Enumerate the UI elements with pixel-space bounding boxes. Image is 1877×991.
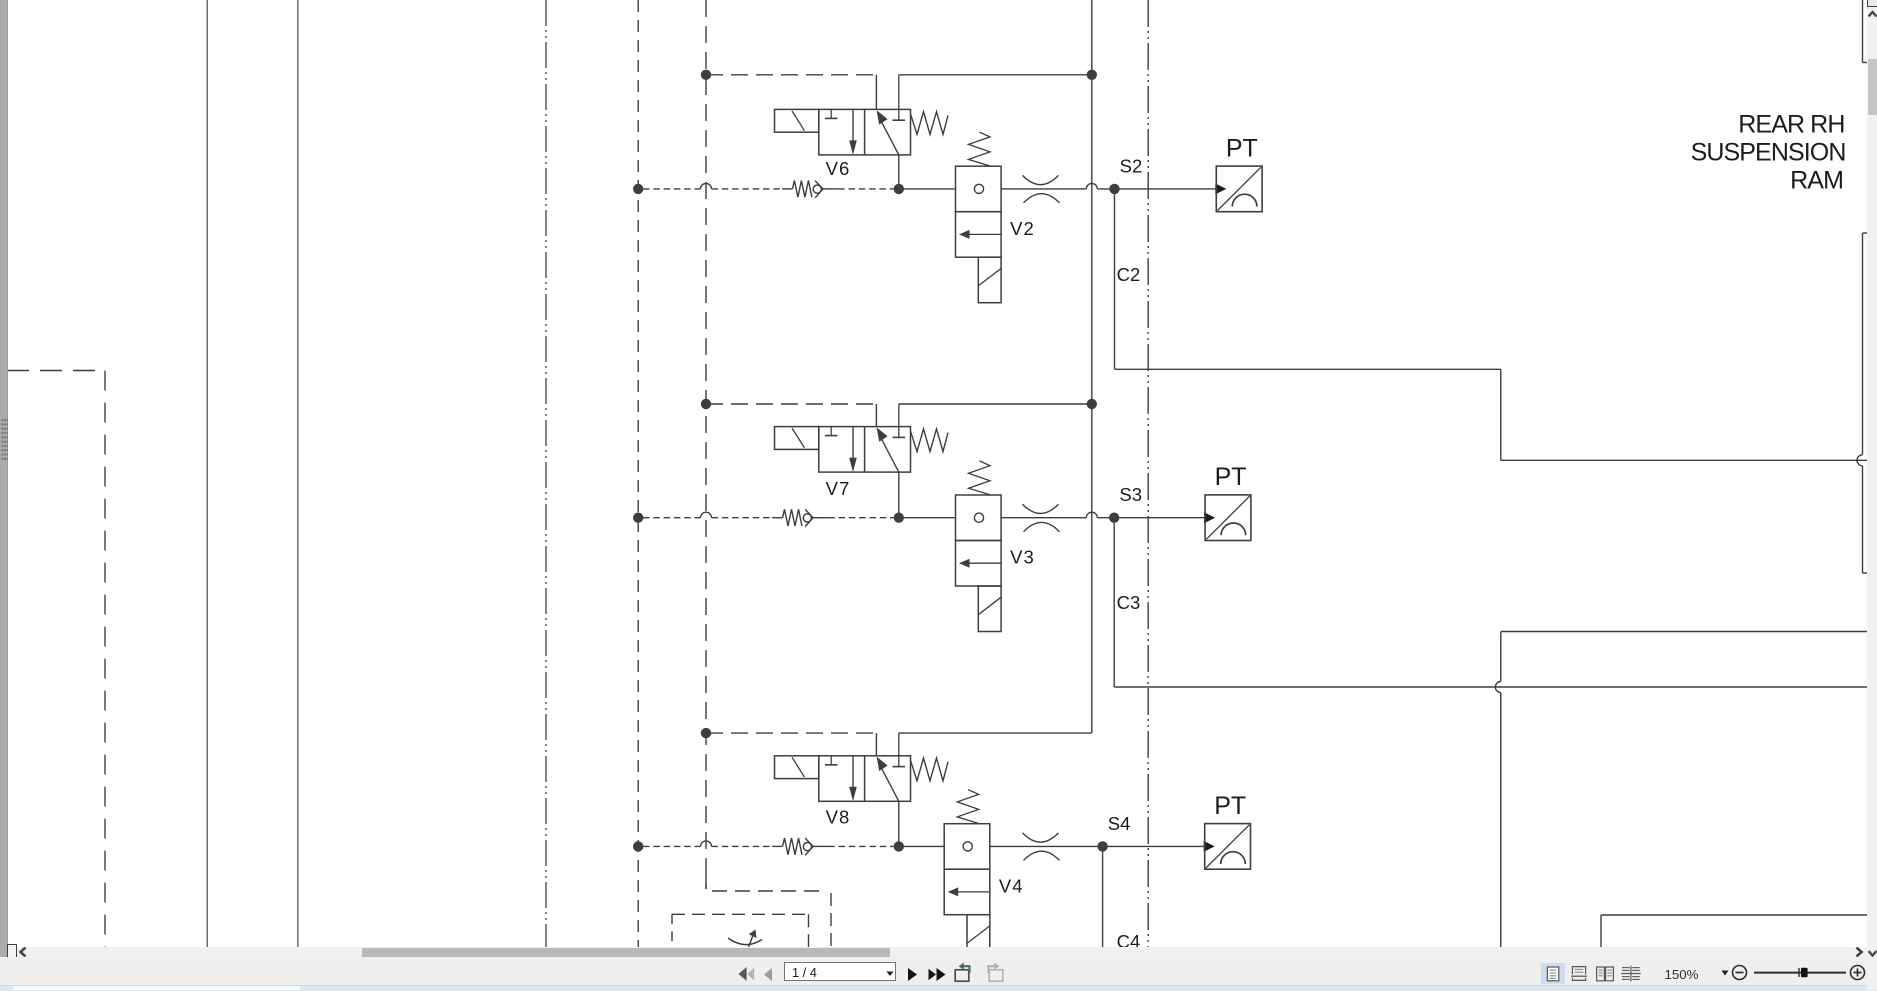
panel expand button (7, 944, 17, 959)
wire: dashed main line to valve node (828, 517, 893, 519)
label C4 (1117, 931, 1141, 952)
wire: C2 to ram (1501, 459, 1869, 461)
wire: C2 drop (1500, 369, 1502, 460)
wire: pilot bus bottom corner (706, 874, 831, 947)
left collapsed panel strip (0, 0, 8, 957)
wire: dashed main line left segment y=517.7 (643, 512, 772, 517)
node: supply bus junction dot y=517.7 (633, 513, 643, 523)
pressure transducer PT S2 (1215, 166, 1262, 212)
svg-text:SUSPENSION: SUSPENSION (1691, 138, 1846, 166)
wire: phantom fold line x=546 (545, 0, 547, 947)
label V8 (826, 807, 851, 828)
wire: sheet frame vertical line left (206, 0, 208, 947)
svg-text:V3: V3 (1010, 547, 1035, 568)
check valve on main line y=188.9 (782, 181, 838, 198)
check valve on main line y=517.7 (772, 509, 828, 526)
solenoid valve V7 (775, 404, 949, 472)
svg-text:S4: S4 (1108, 813, 1131, 834)
single page view icon (selected) (1541, 963, 1565, 984)
node: branch junction dot C3 (1109, 513, 1119, 523)
solenoid valve V8 (775, 733, 949, 801)
wire: dashed main line to valve node (838, 188, 893, 190)
status bar left cell (13, 986, 300, 991)
pressure transducer PT S4 (1204, 824, 1251, 870)
wire: dashed pilot line y=74.8 (706, 74, 876, 76)
pilot operated valve V4 (944, 790, 990, 961)
wire: main line solid to pilot valve (899, 845, 944, 847)
node: main line junction dot at x=899 (894, 184, 904, 194)
svg-text:S2: S2 (1120, 155, 1143, 176)
wire: S4 feed vertical x=1500 (1495, 632, 1501, 948)
horizontal scrollbar row (8, 947, 1868, 957)
node: supply bus junction dot y=846.4 (633, 841, 643, 851)
node: branch junction dot C2 (1109, 184, 1119, 194)
ram cylinder left edge (1857, 233, 1868, 573)
svg-text:REAR RH: REAR RH (1738, 110, 1844, 138)
top cut-off UI box above scrollbar (1867, 0, 1877, 7)
panel grip dots (1, 418, 8, 461)
label C2 (1117, 264, 1141, 285)
variable arrow symbol (cut off) (728, 930, 762, 948)
scroll-left arrow (17, 947, 29, 957)
wire: bottom component corner (1601, 915, 1869, 947)
facing continuous view icon (1619, 963, 1643, 984)
wire: C3 branch vertical (1113, 518, 1115, 687)
node: return bus junction dot y=404.0 (1087, 399, 1097, 409)
label PT S4 (1214, 792, 1246, 820)
wire: phantom fold line x=1148 (1147, 0, 1149, 947)
flow restrictor y=517.7 (1023, 504, 1060, 532)
node: supply bus junction dot y=188.9 (633, 184, 643, 194)
label S4 (1108, 813, 1131, 834)
wire: V6 to return bus (899, 74, 1092, 76)
previous-view icon (953, 962, 975, 984)
zoom slider (1752, 964, 1848, 981)
label V3 (1010, 547, 1035, 568)
label V2 (1010, 218, 1035, 239)
pilot operated valve V2 (956, 132, 1002, 303)
label V7 (826, 478, 851, 499)
wire: dashed main line to valve node (828, 845, 893, 847)
wire: dashed main line left segment y=846.4 (643, 841, 772, 847)
svg-text:PT: PT (1214, 792, 1246, 820)
node: main line junction dot at x=899 (894, 841, 904, 851)
node: pilot junction dot S3 group (701, 399, 711, 409)
wire: C2 branch vertical (1114, 189, 1116, 369)
wire: pilot drop into V8 (875, 733, 877, 756)
solenoid valve V6 (775, 75, 949, 155)
wire: main line to PT S2 (1001, 183, 1216, 188)
wire: main line to PT S4 (990, 845, 1205, 847)
wire: V7 output drop (898, 472, 900, 518)
node: return bus junction dot y=74.8 (1087, 70, 1097, 80)
wire: V6 output drop (898, 155, 900, 189)
vertical scrollbar thumb (1868, 59, 1877, 115)
status bar strip (0, 985, 1877, 991)
wire: main line solid to pilot valve (899, 188, 956, 190)
svg-text:C4: C4 (1117, 931, 1141, 947)
label V4 (999, 875, 1024, 896)
wire: pilot bus (long dash) x=706 (705, 0, 707, 889)
wire: V8 to return bus (899, 732, 1092, 734)
wire: V7 to return bus (899, 403, 1092, 405)
toolbar first-page button (738, 967, 755, 981)
svg-text:V7: V7 (826, 478, 851, 499)
page box dropdown arrow (886, 971, 894, 977)
wire: left dashed vertical x=105 (104, 371, 106, 948)
wire: C2 horizontal run (1115, 368, 1501, 370)
scrollbar down arrow (1868, 949, 1877, 958)
node: branch junction dot C4 (1097, 841, 1107, 851)
node: pilot junction dot S2 group (701, 70, 711, 80)
scrollbar up arrow (1868, 10, 1877, 19)
flow restrictor y=846.4 (1023, 833, 1060, 861)
flow restrictor y=188.9 (1023, 175, 1060, 203)
wire: pilot drop into V6 (875, 75, 877, 110)
wire: pilot drop into V7 (875, 404, 877, 427)
svg-text:V6: V6 (826, 158, 851, 179)
toolbar last-page button (928, 968, 946, 981)
check valve on main line y=846.4 (772, 838, 828, 855)
svg-text:RAM: RAM (1790, 166, 1843, 194)
dashed enclosure box (accumulator) (672, 914, 809, 947)
svg-text:V2: V2 (1010, 218, 1035, 239)
toolbar prev-page button (763, 968, 773, 981)
wire: main line solid to pilot valve (899, 517, 956, 519)
next-view icon (disabled) (983, 962, 1005, 984)
wire: S4 feed horizontal (1501, 631, 1869, 633)
zoom-out button (1731, 964, 1748, 981)
facing pages view icon (1593, 963, 1617, 984)
svg-text:C2: C2 (1117, 264, 1141, 285)
wire: dashed pilot line y=733.1 (706, 732, 876, 734)
label S2 (1120, 155, 1143, 176)
wire: dashed pilot line y=404.0 (706, 403, 876, 405)
pressure transducer PT S3 (1204, 495, 1251, 541)
toolbar next-page button (907, 968, 918, 981)
label V6 (826, 158, 851, 179)
vertical scrollbar track (1867, 0, 1877, 990)
svg-text:PT: PT (1226, 134, 1258, 162)
label sheet title REAR RH SUSPENSION RAM (1691, 110, 1846, 194)
zoom-in button (1849, 964, 1866, 981)
wire: C4 branch vertical (1102, 846, 1104, 947)
page number box "1 / 4" (784, 962, 896, 982)
wire: V8 output drop (898, 801, 900, 846)
wire: solenoid return bus x=1092 (1091, 0, 1093, 733)
svg-text:S3: S3 (1119, 484, 1142, 505)
label PT S2 (1226, 134, 1258, 162)
horizontal scrollbar thumb (362, 948, 890, 957)
label C3 (1117, 592, 1141, 613)
svg-text:C3: C3 (1117, 592, 1141, 613)
label PT S3 (1215, 463, 1247, 491)
wire: sheet frame vertical line right (297, 0, 299, 947)
wire: C3 to ram (1114, 686, 1869, 688)
svg-text:PT: PT (1215, 463, 1247, 491)
ram cylinder top edge (1863, 0, 1869, 63)
wire: main line to PT S3 (1001, 512, 1205, 517)
continuous view icon (1567, 963, 1591, 984)
zoom dropdown arrow (1721, 970, 1729, 976)
wire: top-left dashed horizontal (7, 370, 105, 372)
svg-text:V8: V8 (826, 807, 851, 828)
node: pilot junction dot S4 group (701, 728, 711, 738)
label S3 (1119, 484, 1142, 505)
wire: dashed main line left segment y=188.9 (643, 183, 782, 188)
zoom percentage label (1665, 967, 1705, 983)
wire: supply bus (dashed) x=638 (637, 0, 639, 947)
bottom toolbar (0, 957, 1877, 985)
svg-text:V4: V4 (999, 875, 1024, 896)
scroll-right arrow (1853, 947, 1865, 957)
node: main line junction dot at x=899 (894, 513, 904, 523)
pilot operated valve V3 (956, 461, 1002, 632)
